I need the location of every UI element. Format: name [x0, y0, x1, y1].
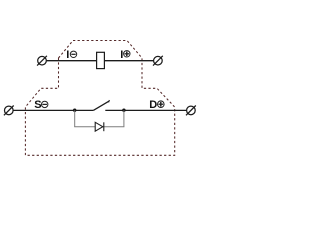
node junction left [73, 109, 76, 112]
terminal S- (screw terminal, bottom left) [4, 106, 14, 116]
terminal I+ (screw terminal, top right) [153, 56, 163, 66]
wire top-right (coil to I+) [104, 60, 153, 62]
terminal I- (screw terminal, top left) [37, 56, 47, 66]
label S- [34, 99, 48, 111]
wire branch right vertical [123, 110, 125, 126]
wire top-left (I- to coil) [47, 60, 97, 62]
wire bottom-right (switch to D+) [105, 109, 186, 111]
label I- [66, 49, 77, 61]
svg-text:I: I [66, 49, 69, 61]
svg-text:D: D [149, 99, 157, 111]
relay coil K1 [97, 52, 105, 68]
svg-text:S: S [34, 99, 41, 111]
wire branch left vertical [74, 110, 76, 126]
label I+ [120, 49, 130, 61]
switch contact (normally open) [93, 100, 109, 110]
wire bottom-left (S- to switch) [13, 109, 93, 111]
terminal D+ (screw terminal, bottom right) [186, 106, 196, 116]
diode D1 (freewheeling, anode left) [95, 122, 104, 131]
wire branch bottom horizontal [74, 126, 124, 128]
label D+ [149, 99, 164, 111]
dashed enclosure outline [25, 41, 174, 156]
node junction right [122, 109, 125, 112]
svg-text:I: I [120, 49, 123, 61]
